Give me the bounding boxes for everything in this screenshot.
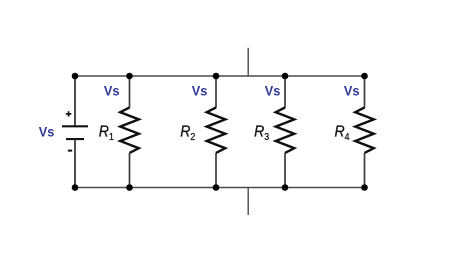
node R4 bottom xyxy=(361,184,368,191)
wire top stub xyxy=(247,48,249,76)
node bottom-left xyxy=(72,184,79,191)
resistor R3 xyxy=(276,108,295,153)
node R1 bottom xyxy=(126,184,133,191)
svg-text:R3: R3 xyxy=(254,123,269,143)
svg-text:Vs: Vs xyxy=(39,123,55,139)
svg-text:R1: R1 xyxy=(99,123,114,143)
node R4 top xyxy=(361,73,368,80)
resistor R1 xyxy=(120,108,139,153)
wire R2 top lead xyxy=(215,76,217,108)
svg-text:Vs: Vs xyxy=(265,83,281,99)
svg-text:Vs: Vs xyxy=(192,83,208,99)
resistor R4 xyxy=(355,108,374,153)
battery VS top plate xyxy=(62,125,88,127)
wire battery top lead xyxy=(74,76,76,126)
wire bottom stub xyxy=(247,188,249,216)
svg-text:R2: R2 xyxy=(180,123,195,143)
wire R3 top lead xyxy=(284,76,286,108)
battery minus sign xyxy=(68,150,72,152)
svg-text:Vs: Vs xyxy=(344,83,360,99)
wire R1 top lead xyxy=(129,76,131,108)
wire top rail xyxy=(75,75,365,77)
node R1 top xyxy=(126,73,133,80)
wire battery bottom lead xyxy=(74,139,76,187)
battery plus sign xyxy=(66,111,71,116)
wire bottom rail xyxy=(75,187,365,189)
wire R1 bottom lead xyxy=(129,153,131,188)
node top-left xyxy=(72,73,79,80)
svg-text:R4: R4 xyxy=(335,123,350,143)
battery VS bottom plate xyxy=(66,138,84,140)
node R3 bottom xyxy=(282,184,289,191)
wire R2 bottom lead xyxy=(215,153,217,188)
wire R4 top lead xyxy=(364,76,366,108)
node R3 top xyxy=(282,73,289,80)
wire R3 bottom lead xyxy=(284,153,286,188)
node R2 top xyxy=(213,73,220,80)
resistor R2 xyxy=(207,108,226,153)
node R2 bottom xyxy=(213,184,220,191)
svg-text:Vs: Vs xyxy=(104,83,120,99)
wire R4 bottom lead xyxy=(364,153,366,188)
